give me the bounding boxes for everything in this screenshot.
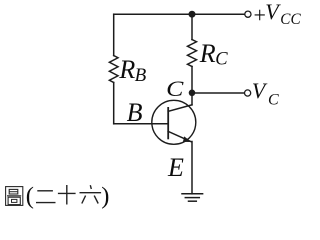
- svg-text:E: E: [167, 153, 184, 182]
- wire Vcc stub: [192, 13, 245, 15]
- glyph liu: [90, 185, 91, 189]
- svg-text:C: C: [215, 50, 228, 70]
- wire RC bottom: [191, 67, 193, 94]
- svg-text:C: C: [268, 91, 279, 108]
- svg-text:+: +: [254, 2, 266, 27]
- glyph tu outer box: [6, 187, 23, 206]
- ground: [182, 193, 203, 195]
- glyph shi: [58, 192, 76, 194]
- svg-text:R: R: [199, 39, 216, 68]
- transistor Q1 circle: [152, 100, 196, 144]
- label Vc: [252, 78, 279, 108]
- emitter arrow head: [183, 136, 192, 142]
- wire collector lead: [191, 93, 193, 105]
- svg-text:): ): [101, 182, 109, 209]
- label RB: [118, 55, 146, 86]
- glyph er: [37, 190, 53, 192]
- terminal +Vcc: [245, 11, 251, 17]
- wire left branch upper: [113, 14, 115, 55]
- label RC: [199, 39, 229, 70]
- transistor base bar: [167, 108, 169, 138]
- transistor emitter diagonal: [168, 131, 191, 141]
- resistor RB: [109, 56, 118, 83]
- svg-text:R: R: [118, 55, 135, 84]
- caption figure number: [6, 187, 23, 206]
- glyph tu middle stroke: [7, 195, 21, 197]
- glyph tu top small box: [9, 189, 18, 194]
- wire top rail: [114, 13, 245, 15]
- glyph tu bottom box: [8, 197, 20, 204]
- wire Vc stub: [192, 92, 244, 94]
- wire emitter lead: [191, 142, 193, 194]
- resistor RC: [188, 40, 197, 67]
- wire base: [114, 123, 169, 125]
- svg-text:C: C: [166, 76, 185, 101]
- svg-text:CC: CC: [280, 11, 301, 28]
- wire RC top: [191, 14, 193, 39]
- svg-text:B: B: [127, 98, 143, 127]
- terminal Vc: [245, 90, 251, 96]
- junction dot collector node: [189, 90, 196, 97]
- wire left branch lower: [113, 83, 115, 124]
- transistor collector diagonal: [168, 105, 192, 112]
- label +Vcc: [254, 0, 301, 28]
- junction dot top: [189, 11, 196, 18]
- svg-text:(: (: [26, 182, 34, 209]
- svg-text:B: B: [135, 65, 147, 86]
